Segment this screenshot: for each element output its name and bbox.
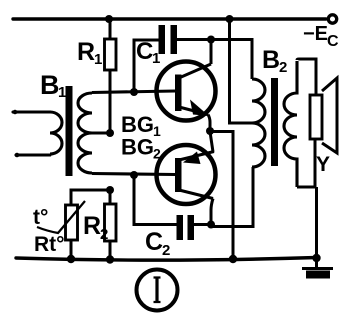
label B2: [262, 46, 287, 76]
svg-text:2: 2: [153, 146, 161, 162]
svg-text:1: 1: [94, 51, 102, 68]
thermistor Rt: [37, 201, 85, 259]
B1 primary bottom lead: [16, 153, 50, 156]
svg-text:1: 1: [152, 50, 160, 67]
label -Ec: [303, 23, 339, 50]
label R1: [77, 38, 102, 68]
ground: [302, 269, 333, 279]
B1 core: [66, 86, 73, 176]
node C2 base: [130, 171, 138, 179]
wire B2 secondary bottom to ground: [297, 187, 317, 269]
B2 core: [271, 78, 278, 166]
B1 primary top lead: [13, 110, 50, 113]
svg-text:C: C: [327, 33, 339, 50]
label C2: [145, 228, 170, 259]
transformer B2: [230, 19, 298, 187]
svg-text:R: R: [83, 212, 101, 240]
label B1: [40, 70, 66, 101]
wire bottom ground rail: [16, 258, 317, 261]
capacitor C2: [134, 175, 211, 240]
B2 secondary winding: [284, 61, 297, 187]
svg-text:1: 1: [58, 84, 66, 101]
capacitor C1: [134, 25, 211, 92]
wire bias to Rt: [71, 190, 110, 205]
wire BG2 collector to B2 bottom: [211, 167, 253, 227]
node C1 collector: [207, 36, 215, 44]
terminal -Ec: [328, 15, 336, 23]
svg-text:BG: BG: [121, 135, 154, 160]
resistor R2: [105, 190, 117, 260]
wire BG1 collector to B2 top: [211, 40, 252, 80]
B1 secondary winding: [78, 93, 92, 173]
node R1 top: [105, 15, 113, 23]
transistor BG1: [157, 62, 216, 121]
svg-text:2: 2: [100, 226, 108, 243]
label C1: [136, 38, 160, 67]
resistor R1: [105, 19, 117, 133]
B2 primary winding: [252, 79, 265, 167]
node R2 rail: [106, 255, 114, 263]
svg-text:1: 1: [153, 123, 161, 139]
node bias R2: [106, 186, 114, 194]
svg-text:Rt°: Rt°: [34, 233, 65, 256]
svg-text:B: B: [262, 46, 280, 74]
svg-text:t°: t°: [33, 206, 48, 229]
wire B2 secondary top to speaker: [297, 59, 316, 95]
svg-text:Y: Y: [316, 153, 330, 176]
wire BG1 emitter down: [208, 115, 210, 132]
B1 primary winding: [50, 112, 62, 154]
svg-text:C: C: [145, 228, 163, 256]
wire BG1 base: [92, 91, 175, 93]
wire speaker bottom: [314, 139, 317, 187]
wire emitters to ground rail: [210, 132, 233, 260]
node C1 base: [130, 88, 138, 96]
node emitter rail: [229, 255, 237, 263]
svg-text:2: 2: [279, 59, 287, 76]
figure label I: [137, 270, 178, 311]
transformer B1: [13, 86, 92, 176]
B2 center tap wire: [230, 19, 253, 123]
loudspeaker Y: [310, 78, 337, 153]
svg-text:BG: BG: [121, 112, 154, 137]
node Rt rail: [67, 255, 75, 263]
wire BG2 collector down: [211, 199, 213, 227]
wire top supply rail: [13, 17, 326, 20]
wire B1 center tap: [92, 131, 110, 134]
svg-text:R: R: [77, 38, 95, 66]
svg-text:C: C: [136, 38, 153, 65]
svg-text:B: B: [40, 70, 60, 100]
label BG2: [121, 135, 161, 162]
wire BG2 base: [92, 174, 175, 175]
svg-text:−E: −E: [303, 23, 328, 45]
node emitters: [206, 127, 214, 135]
node center tap top: [226, 15, 234, 23]
wire node to BG2 emitter: [210, 132, 213, 153]
svg-text:2: 2: [162, 242, 170, 259]
transistor BG2: [157, 145, 216, 204]
label R2: [83, 212, 108, 243]
label BG1: [121, 112, 161, 139]
node center tap / bias: [106, 129, 114, 137]
node C2 right: [207, 221, 215, 229]
node rail ground: [312, 254, 320, 262]
